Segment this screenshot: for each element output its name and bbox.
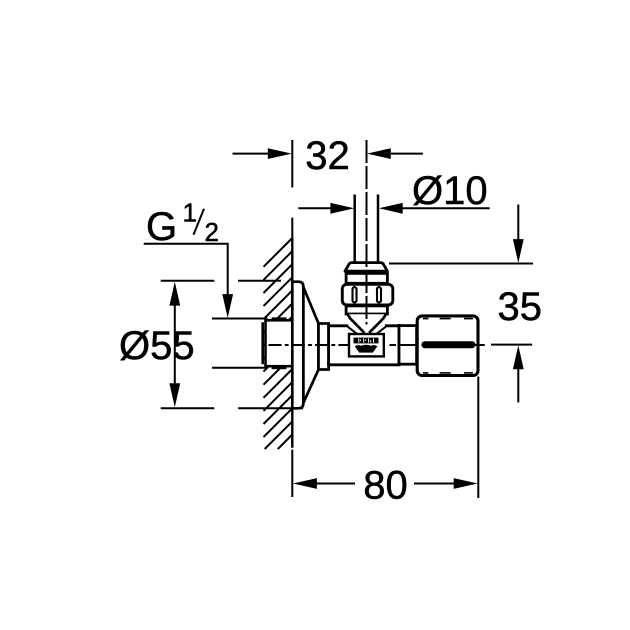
wall face line	[291, 237, 293, 447]
svg-text:80: 80	[363, 464, 408, 508]
dim 80	[292, 377, 478, 499]
dim 35	[389, 205, 533, 403]
funnel cone into body	[348, 314, 386, 333]
upper band	[346, 273, 387, 283]
GROHE label box	[349, 334, 384, 356]
dim 32 extension (dashed wall line above)	[291, 140, 293, 237]
inlet pipe	[353, 195, 356, 263]
thread reference lines	[212, 318, 268, 320]
escutcheon disc	[292, 282, 303, 409]
handle groove (black band)	[422, 341, 476, 348]
thread connector G1/2 (white masks hatch)	[263, 319, 293, 368]
dim O55	[161, 281, 303, 409]
handle chamfer marks top	[423, 319, 473, 373]
svg-text:Ø55: Ø55	[119, 324, 195, 368]
svg-text:35: 35	[498, 285, 543, 329]
svg-text:Ø10: Ø10	[412, 169, 488, 213]
wall hatching	[264, 238, 293, 449]
hex nut facets	[353, 287, 382, 302]
dim 32	[233, 153, 423, 155]
GROHE wordmark	[354, 338, 379, 344]
compression ferrule	[345, 263, 387, 272]
funnel wings	[348, 327, 358, 335]
valve body	[329, 325, 399, 365]
compression hex nut	[342, 284, 393, 305]
lower band	[346, 306, 387, 314]
svg-text:32: 32	[305, 134, 350, 178]
svg-text:1: 1	[183, 198, 197, 228]
escutcheon neck	[319, 324, 329, 370]
G 1/2 leader	[144, 244, 228, 295]
horizontal centerline	[269, 344, 485, 346]
dim O10	[298, 207, 489, 209]
GROHE logo blob	[355, 345, 378, 353]
svg-text:2: 2	[205, 217, 219, 247]
vertical centerline	[366, 140, 368, 325]
svg-text:G: G	[146, 205, 177, 249]
escutcheon cone	[303, 287, 318, 403]
handle knob	[417, 316, 478, 376]
outlet stem	[399, 326, 417, 365]
